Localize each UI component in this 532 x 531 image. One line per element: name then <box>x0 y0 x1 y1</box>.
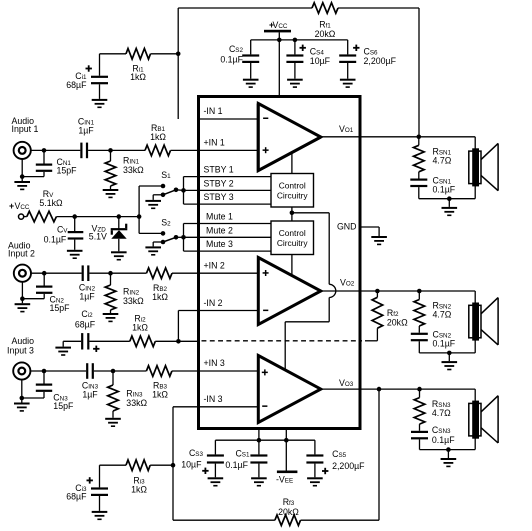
label pin -IN 1 <box>204 106 223 116</box>
wire CN3 to jack ground <box>22 380 44 403</box>
node jack2 ground junction <box>20 296 25 301</box>
wire Ci3 corner <box>100 465 127 487</box>
svg-text:0.1µF: 0.1µF <box>432 435 455 445</box>
polarity + CS4 <box>300 45 306 51</box>
wire snubber3 ground stem <box>447 450 449 458</box>
wire zener stem <box>118 217 120 229</box>
control circuitry U1a box <box>271 174 314 208</box>
wire Ci3 to ground <box>99 496 101 511</box>
label Ci1 <box>75 71 87 81</box>
wire S2 feed <box>139 232 163 234</box>
label CIN2 <box>79 283 96 293</box>
speaker LS2 <box>469 291 498 353</box>
label VZD <box>92 224 107 234</box>
svg-text:2,200µF: 2,200µF <box>364 56 397 66</box>
op-amp A2 minus sign <box>263 310 268 312</box>
wire +VCC distribution rail <box>251 39 348 41</box>
label pin VO1 <box>339 124 354 134</box>
wire -IN3 pin <box>199 406 259 408</box>
label CIN3 value <box>82 390 98 400</box>
op-amp A2 plus sign <box>263 270 269 276</box>
capacitor CN1 <box>36 164 52 172</box>
label pin VO2 <box>340 278 355 288</box>
label CSN3 value <box>432 435 455 445</box>
wire Ri3 to junction <box>150 464 173 466</box>
wire Ci1 to ground <box>99 84 101 99</box>
wire CIN3 to RB3 <box>94 370 146 372</box>
wire Ci2 to Ri2 <box>89 340 129 342</box>
capacitor CSN3 <box>411 431 428 440</box>
capacitor CN3 <box>36 384 52 392</box>
svg-text:1µF: 1µF <box>82 390 98 400</box>
op-amp A1 <box>258 104 321 171</box>
resistor RIN3 <box>108 371 119 418</box>
svg-text:Mute 3: Mute 3 <box>206 239 233 249</box>
wire RB1 to +IN1 pin <box>171 149 199 151</box>
wire -IN2 pin <box>199 310 259 312</box>
wire snubber2 bottom <box>419 341 475 353</box>
label pin -IN 2 <box>204 298 223 308</box>
ground CS5 <box>307 477 323 486</box>
svg-text:Input 1: Input 1 <box>12 124 39 134</box>
label CIN3 <box>82 381 99 391</box>
label CS2 value <box>220 55 243 65</box>
label CS6 <box>364 47 379 57</box>
wire CN2 stem <box>43 273 45 285</box>
label Rf3 value <box>278 507 299 517</box>
wire CS3 to ground <box>214 464 216 478</box>
node Rf2 junction <box>375 289 380 294</box>
label Rv <box>43 189 54 199</box>
label pin STBY 3 <box>204 192 234 202</box>
svg-text:-IN 2: -IN 2 <box>204 298 223 308</box>
label RB2 <box>153 283 168 293</box>
node RIN3 junction <box>111 369 116 374</box>
capacitor Cv <box>68 231 84 240</box>
svg-text:1kΩ: 1kΩ <box>130 72 146 82</box>
ground CS3 <box>208 477 224 486</box>
node control circuitry junction <box>290 211 295 216</box>
svg-text:1kΩ: 1kΩ <box>132 323 148 333</box>
wire VO2 output <box>321 290 475 292</box>
resistor Rf2 <box>372 291 383 341</box>
label +VCC top <box>269 20 288 30</box>
label Ci1 value <box>66 80 87 90</box>
wire Ci1 stem <box>99 54 101 76</box>
resistor Rv <box>27 211 57 222</box>
switch S1 <box>161 184 179 197</box>
wire dashed feedback line ch2 <box>202 340 363 342</box>
label Ri3 <box>133 476 145 486</box>
ground RIN1 <box>103 189 119 198</box>
label pin STBY 2 <box>204 178 234 188</box>
label CSN1 <box>433 176 452 186</box>
label RSN2 <box>433 301 452 311</box>
label Rf1 value <box>315 29 336 39</box>
connector RCA jack J3 <box>13 362 30 379</box>
svg-text:1µF: 1µF <box>78 126 94 136</box>
node jack1 ground junction <box>20 174 25 179</box>
wire switch bus vertical <box>138 186 140 233</box>
wire Ri1 to -IN1 node <box>100 53 179 55</box>
label RIN1 <box>123 156 140 166</box>
svg-text:33kΩ: 33kΩ <box>123 296 144 306</box>
label CSN2 value <box>433 339 456 349</box>
label pin Mute 3 <box>206 239 233 249</box>
svg-text:4.7Ω: 4.7Ω <box>432 408 451 418</box>
label CS5 value <box>332 461 365 471</box>
capacitor Ci3 <box>91 487 108 496</box>
svg-text:Input 2: Input 2 <box>8 249 35 259</box>
svg-text:0.1µF: 0.1µF <box>225 460 248 470</box>
ground Cv <box>67 250 83 259</box>
svg-text:20kΩ: 20kΩ <box>387 318 408 328</box>
node Ri1/-IN1 junction <box>176 52 181 57</box>
label -VEE <box>276 475 293 485</box>
wire zener to ground <box>118 239 120 252</box>
svg-text:2,200µF: 2,200µF <box>332 461 365 471</box>
svg-text:20kΩ: 20kΩ <box>315 29 336 39</box>
label RSN1 <box>433 147 452 157</box>
svg-text:33kΩ: 33kΩ <box>123 165 144 175</box>
label S1 <box>161 170 171 180</box>
ground Ci1 <box>92 99 108 108</box>
speaker LS1 <box>469 137 498 199</box>
label RIN1 value <box>123 165 144 175</box>
label Rf1 <box>319 20 331 30</box>
label CSN3 <box>432 425 451 435</box>
svg-text:15pF: 15pF <box>50 303 71 313</box>
ground Ci2 <box>55 347 71 356</box>
wire -IN2 external <box>178 311 198 342</box>
node RIN1 junction <box>108 148 113 153</box>
resistor RB2 <box>147 268 173 279</box>
svg-text:1kΩ: 1kΩ <box>131 485 147 495</box>
connector +VCC terminal <box>19 214 24 219</box>
node RIN2 junction <box>108 271 113 276</box>
wire Ci2 to ground <box>63 341 81 346</box>
wire Cv to ground <box>74 240 76 250</box>
node CS1 rail junction <box>257 438 262 443</box>
ground VZD <box>111 251 127 260</box>
capacitor Ci1 <box>91 76 108 85</box>
label Rf2 value <box>387 318 408 328</box>
label Cv value <box>44 235 67 245</box>
capacitor CSN1 <box>410 179 427 188</box>
svg-text:20kΩ: 20kΩ <box>278 507 299 517</box>
wire CN1 stem <box>43 150 45 163</box>
label RB3 <box>153 381 168 391</box>
svg-text:Control: Control <box>279 181 306 191</box>
wire S1 pole to ground <box>153 195 163 200</box>
wire jack3 to CIN3 <box>30 370 86 372</box>
wire Rv to switch bus <box>56 216 139 218</box>
wire CIN2 to RB2 <box>89 272 146 274</box>
label Ri1 <box>132 64 144 74</box>
capacitor CS1 <box>250 454 267 463</box>
wire CC junction to GND bus <box>292 213 329 284</box>
power -VEE terminal bar <box>277 471 298 474</box>
wire snubber1 ground stem <box>448 199 450 207</box>
capacitor CS6 <box>339 54 356 63</box>
label Ci3 <box>75 483 87 493</box>
wire +IN3 pin <box>199 370 259 372</box>
label RIN2 value <box>123 296 144 306</box>
label pin -IN 3 <box>204 394 223 404</box>
capacitor Ci2 <box>81 333 89 349</box>
wire CC1 to CC2 <box>291 207 293 221</box>
capacitor CN2 <box>36 286 52 294</box>
node switch bus junction <box>137 214 142 219</box>
wire -IN1 pin <box>199 118 259 120</box>
ground snubber1 <box>442 207 458 216</box>
svg-text:0.1µF: 0.1µF <box>44 235 67 245</box>
label CS1 value <box>225 460 248 470</box>
label S2 <box>161 218 171 228</box>
wire snubber3 bottom <box>420 439 476 449</box>
label Ci3 value <box>66 492 87 502</box>
label Ri1 value <box>130 72 146 82</box>
speaker LS3 <box>469 389 498 450</box>
op-amp IC U1 outline (3-channel power amplifier) <box>199 97 361 429</box>
label CN3 <box>53 393 68 403</box>
op-amp A3 <box>258 356 321 423</box>
svg-text:1kΩ: 1kΩ <box>152 390 168 400</box>
resistor RSN3 <box>414 389 425 431</box>
node Mute bus junction <box>181 235 186 240</box>
wire Mute bus <box>184 224 272 252</box>
svg-text:4.7Ω: 4.7Ω <box>433 310 452 320</box>
label pin STBY 1 <box>204 165 234 175</box>
label Audio Input 2 <box>8 241 35 259</box>
wire CS1 stem to IC <box>258 428 260 454</box>
label CIN1 value <box>78 126 94 136</box>
wire CS2 stem <box>250 40 252 55</box>
svg-text:Control: Control <box>279 228 306 238</box>
node CS4 junction <box>293 38 298 43</box>
op-amp A1 minus sign <box>263 118 268 120</box>
node VCC stem junction <box>277 38 282 43</box>
wire +VCC stem into IC <box>278 32 280 96</box>
wire Rf2 to dashed line <box>365 340 377 342</box>
label VZD value <box>89 232 107 242</box>
ground Ci3 <box>92 511 108 520</box>
label CIN1 <box>78 117 95 127</box>
svg-text:68µF: 68µF <box>66 80 87 90</box>
label RSN1 value <box>433 156 452 166</box>
svg-text:+IN 2: +IN 2 <box>204 261 225 271</box>
svg-text:Circuitry: Circuitry <box>277 191 309 201</box>
label RSN2 value <box>433 310 452 320</box>
diode VZD zener 5.1V <box>111 224 128 239</box>
node CN1 junction <box>42 148 47 153</box>
wire -VEE stem to IC <box>285 428 287 471</box>
svg-text:+IN 1: +IN 1 <box>204 138 225 148</box>
capacitor CIN2 <box>82 265 90 281</box>
wire S2 pole to ground <box>153 242 163 246</box>
ground CS1 <box>251 477 267 486</box>
wire RB2 to +IN2 pin <box>172 272 199 274</box>
resistor RB1 <box>145 145 171 156</box>
wire STBY bus <box>184 177 272 205</box>
label CSN1 value <box>433 185 456 195</box>
wire CN3 stem <box>43 371 45 384</box>
label Audio Input 3 <box>7 336 34 356</box>
resistor RSN2 <box>414 291 425 333</box>
resistor Ri3 <box>126 460 150 471</box>
op-amp A2 <box>258 258 321 325</box>
svg-text:STBY 3: STBY 3 <box>204 192 234 202</box>
ground jack J2 <box>15 303 31 312</box>
label RIN3 value <box>126 398 147 408</box>
control circuitry U1b box <box>271 221 314 255</box>
label RIN2 <box>123 287 140 297</box>
capacitor CS2 <box>242 54 259 63</box>
node jack3 ground junction <box>20 396 25 401</box>
op-amp A1 plus sign <box>263 147 269 153</box>
capacitor CIN1 <box>80 143 88 159</box>
wire +IN2 pin <box>199 272 259 274</box>
node RSN3 junction <box>417 387 422 392</box>
wire S2 to Mute bus <box>176 236 184 238</box>
node Ri3/-IN3 junction <box>171 463 176 468</box>
resistor RIN2 <box>105 273 116 313</box>
wire snubber1 bottom <box>419 187 475 199</box>
wire CS5 stem <box>314 440 316 454</box>
polarity + CS6 <box>353 45 359 51</box>
label CN1 <box>57 157 72 167</box>
ground S1 <box>145 200 161 209</box>
label pin +IN 2 <box>204 261 225 271</box>
connector RCA jack J2 <box>14 265 31 282</box>
svg-text:0.1µF: 0.1µF <box>433 185 456 195</box>
label CIN2 value <box>79 292 95 302</box>
ground RIN3 <box>105 418 121 427</box>
svg-text:1µF: 1µF <box>79 292 95 302</box>
wire CS6 stem <box>347 40 349 55</box>
label RIN3 <box>126 389 143 399</box>
label CN2 <box>50 295 65 305</box>
svg-text:4.7Ω: 4.7Ω <box>433 156 452 166</box>
svg-text:STBY 2: STBY 2 <box>204 178 234 188</box>
svg-text:10µF: 10µF <box>181 460 202 470</box>
resistor RB3 <box>146 366 172 377</box>
ground jack J1 <box>14 181 30 190</box>
node CN3 junction <box>42 369 47 374</box>
capacitor CIN3 <box>86 363 94 379</box>
wire CC2 to A2 <box>291 255 293 277</box>
resistor RSN1 <box>414 137 425 179</box>
label CS2 <box>229 44 244 54</box>
wire CN1 to jack ground <box>22 159 44 181</box>
ground RIN2 <box>103 313 119 322</box>
svg-text:GND: GND <box>337 222 357 232</box>
label CSN2 <box>433 330 452 340</box>
node Ri2/-IN2 junction <box>176 339 181 344</box>
capacitor CS3 <box>207 454 224 463</box>
label Cv <box>57 225 68 235</box>
node -VEE rail junction <box>284 438 289 443</box>
wire CS4 stem <box>294 40 296 55</box>
wire CS1 to ground <box>258 464 260 478</box>
capacitor CS5 <box>306 454 323 463</box>
label RB1 <box>151 123 166 133</box>
capacitor CS4 <box>286 54 303 63</box>
wire -IN1 feedback net top rail <box>178 8 419 137</box>
svg-text:+: + <box>9 201 14 211</box>
resistor Rf1 <box>312 3 338 14</box>
node snubber1 ground junction <box>447 196 452 201</box>
svg-text:Audio: Audio <box>12 336 35 346</box>
label Ri3 value <box>131 485 147 495</box>
label CS5 <box>332 449 347 459</box>
label Rf3 <box>283 497 295 507</box>
polarity + Ci2 <box>93 346 99 352</box>
node Cv junction <box>72 214 77 219</box>
svg-text:STBY 1: STBY 1 <box>204 165 234 175</box>
svg-text:68µF: 68µF <box>66 492 87 502</box>
label Ci2 <box>81 309 93 319</box>
node snubber2 ground junction <box>447 351 452 356</box>
label Rv value <box>39 198 63 208</box>
label Rf2 <box>387 308 399 318</box>
label control circuitry 1 <box>277 181 309 201</box>
node VZD junction <box>117 214 122 219</box>
node Rf1/VO1 junction <box>417 135 422 140</box>
switch S2 <box>161 231 179 244</box>
label CS3 value <box>181 460 202 470</box>
svg-text:5.1kΩ: 5.1kΩ <box>39 198 63 208</box>
label CN2 value <box>50 303 71 313</box>
ground CS6 <box>340 79 356 88</box>
node snubber3 ground junction <box>446 447 451 452</box>
wire RB3 to +IN3 pin <box>172 370 199 372</box>
polarity + CS5 <box>322 468 328 474</box>
ground CS2 <box>243 79 259 88</box>
resistor RIN1 <box>105 150 116 189</box>
label RB2 value <box>152 292 168 302</box>
svg-text:15pF: 15pF <box>53 401 74 411</box>
wire GND pin <box>360 227 379 236</box>
svg-text:Mute 1: Mute 1 <box>206 212 233 222</box>
wire S1 feed <box>139 185 163 187</box>
label pin Mute 2 <box>206 225 233 235</box>
wire Ri2 to junction <box>155 340 198 342</box>
wire snubber2 ground stem <box>448 353 450 361</box>
connector RCA jack J1 <box>14 142 31 159</box>
resistor Rf3 <box>275 515 301 526</box>
label RSN3 <box>432 399 451 409</box>
wire VO3 output <box>321 388 475 390</box>
wire CIN1 to RB1 <box>88 149 145 151</box>
polarity + Ci3 <box>87 477 93 483</box>
label Ri2 value <box>132 323 148 333</box>
label pin +IN 3 <box>204 358 225 368</box>
polarity + Ci1 <box>86 65 92 71</box>
label Audio Input 1 <box>12 116 39 134</box>
label CS4 <box>310 47 325 57</box>
ground snubber3 <box>441 458 457 467</box>
wire jack2 to CIN2 <box>31 272 82 274</box>
svg-text:5.1V: 5.1V <box>89 232 107 242</box>
svg-text:Mute 2: Mute 2 <box>206 225 233 235</box>
svg-text:-IN 1: -IN 1 <box>204 106 223 116</box>
op-amp A3 minus sign <box>262 405 267 407</box>
resistor Ri2 <box>130 336 156 347</box>
label pin Mute 1 <box>206 212 233 222</box>
node CN2 junction <box>42 271 47 276</box>
label control circuitry 2 <box>277 228 309 248</box>
